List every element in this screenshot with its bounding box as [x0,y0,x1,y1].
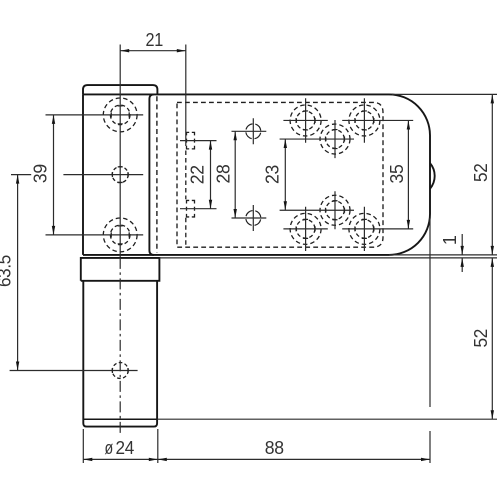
svg-text:23: 23 [262,165,282,184]
svg-text:88: 88 [265,438,284,458]
svg-text:1: 1 [440,235,460,245]
svg-text:35: 35 [387,164,407,183]
svg-text:24: 24 [116,438,135,458]
svg-text:22: 22 [188,165,208,184]
svg-text:21: 21 [145,30,163,50]
svg-text:52: 52 [471,163,491,182]
svg-text:63.5: 63.5 [0,255,15,287]
svg-text:52: 52 [471,329,491,348]
svg-text:28: 28 [214,164,234,183]
svg-text:ø: ø [105,438,114,458]
svg-text:39: 39 [30,164,50,183]
